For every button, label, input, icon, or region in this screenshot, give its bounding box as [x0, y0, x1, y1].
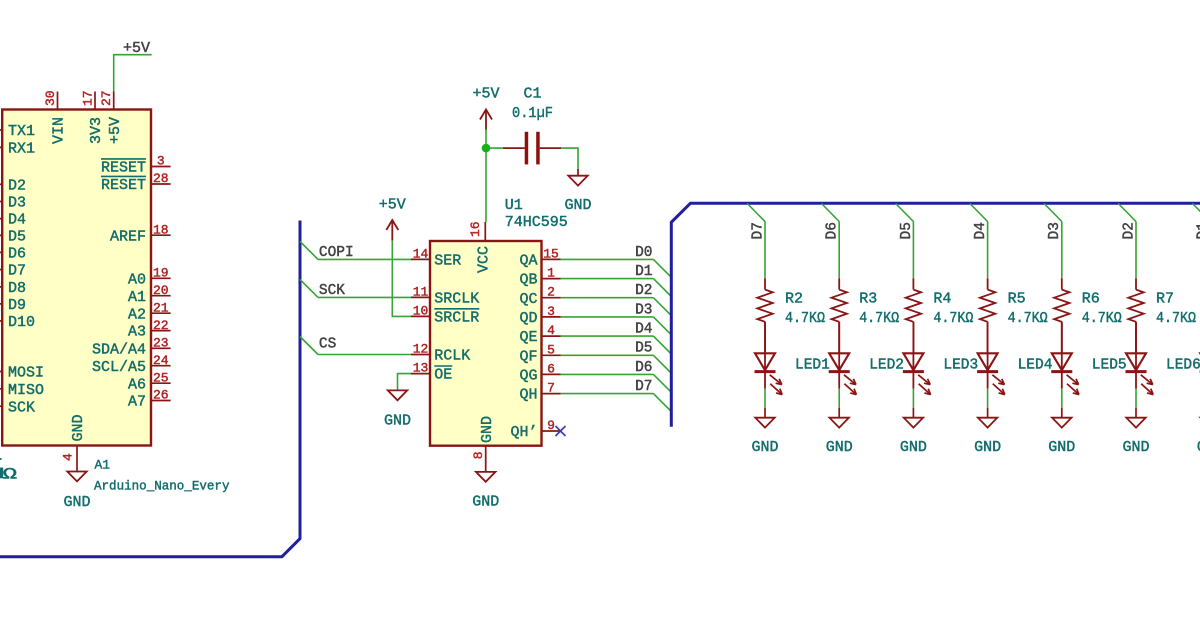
wire D3 from U1 QD [561, 316, 654, 318]
power symbol +5V (left of U1) [391, 220, 393, 241]
svg-text:14: 14 [413, 246, 429, 261]
ground pin stub [912, 408, 914, 418]
svg-text:LED3: LED3 [943, 358, 978, 374]
svg-text:QA: QA [519, 253, 537, 270]
wire D4 from U1 QE [561, 335, 654, 337]
svg-text:QE: QE [519, 329, 537, 346]
pin D6 (left) [0, 251, 2, 253]
U1 pin SRCLK pin11 (left) [411, 296, 430, 298]
svg-text:GND: GND [479, 416, 496, 443]
LED LED2 [838, 322, 840, 372]
svg-text:RCLK: RCLK [434, 348, 470, 365]
bus entry D5 column [896, 204, 914, 222]
svg-text:D0: D0 [635, 245, 652, 261]
svg-text:28: 28 [153, 171, 169, 186]
svg-text:OE: OE [434, 367, 452, 384]
bus entry D7 column [747, 204, 765, 222]
svg-text:SCK: SCK [8, 399, 35, 416]
U1 pin OE pin13 (left) [411, 373, 430, 375]
svg-text:11: 11 [413, 284, 429, 299]
pin D9 (left) [0, 303, 2, 305]
pin GND pin4 (bottom) [76, 446, 78, 472]
svg-text:+5V: +5V [472, 85, 499, 102]
bus entry D4 [653, 336, 671, 354]
svg-text:QH: QH [519, 387, 537, 404]
svg-text:D10: D10 [8, 314, 35, 331]
svg-text:U1: U1 [505, 197, 523, 214]
ground symbol column D2 [1126, 418, 1145, 428]
pin MOSI (left) [0, 371, 2, 373]
svg-text:QB: QB [519, 272, 537, 289]
svg-text:D1: D1 [635, 264, 652, 280]
svg-text:6: 6 [547, 361, 555, 376]
bus entry D6 [653, 374, 671, 392]
ground symbol column D5 [904, 418, 923, 428]
svg-text:4.7KΩ: 4.7KΩ [1008, 310, 1048, 327]
svg-text:2: 2 [547, 285, 555, 300]
svg-text:SER: SER [434, 253, 461, 270]
bus entry D3 [653, 317, 671, 335]
ground symbol column D7 [755, 418, 774, 428]
bus entry CS [300, 337, 318, 355]
pin A1 pin20 (right) [151, 295, 171, 297]
svg-text:3: 3 [547, 304, 555, 319]
Arduino Nano Every A1 body [2, 110, 151, 446]
pin A0 pin19 (right) [151, 277, 171, 279]
svg-text:25: 25 [153, 370, 169, 385]
wire OE to ground [398, 374, 412, 391]
U1 pin QC pin2 (right) [542, 297, 561, 299]
wire +5V down to VCC [485, 129, 487, 222]
svg-text:7: 7 [547, 381, 555, 396]
resistor R7 [1135, 278, 1137, 289]
pin D4 (left) [0, 218, 2, 220]
U1 pin SER pin14 (left) [411, 258, 430, 260]
svg-text:TX1: TX1 [8, 123, 35, 140]
svg-text:D2: D2 [8, 177, 26, 194]
wire D4 to resistor [987, 222, 989, 279]
pin RX1 (left) [0, 146, 2, 148]
pin A2 pin21 (right) [151, 312, 171, 314]
bus entry COPI [300, 241, 318, 259]
pin MISO (left) [0, 388, 2, 390]
pin SCK (left) [0, 405, 2, 407]
svg-text:D1: D1 [1196, 222, 1200, 239]
svg-text:3V3: 3V3 [88, 117, 105, 144]
svg-text:D4: D4 [8, 212, 26, 229]
U1 pin QG pin6 (right) [542, 373, 561, 375]
U1 pin QA pin15 (right) [542, 258, 561, 260]
ground pin stub [577, 169, 579, 176]
svg-text:D6: D6 [635, 360, 652, 376]
junction [482, 144, 491, 153]
svg-text:D5: D5 [8, 229, 26, 246]
svg-text:LED5: LED5 [1092, 358, 1127, 374]
svg-text:9: 9 [547, 418, 555, 433]
svg-text:GND: GND [900, 439, 927, 456]
svg-text:10: 10 [413, 303, 429, 318]
svg-text:COPI: COPI [319, 245, 354, 261]
wire LED to ground [1061, 389, 1063, 408]
wire D0 from U1 QA [561, 258, 654, 260]
bus (right, to LED columns) [671, 203, 1200, 426]
pin D8 (left) [0, 286, 2, 288]
ground symbol under A1 [67, 472, 86, 482]
resistor R5 [987, 278, 989, 289]
svg-text:0.1µF: 0.1µF [512, 105, 553, 122]
wire D2 from U1 QC [561, 297, 654, 299]
svg-text:+5V: +5V [123, 40, 150, 57]
LED LED1 [764, 322, 766, 372]
svg-text:D7: D7 [8, 263, 26, 280]
svg-text:24: 24 [153, 353, 169, 368]
svg-text:D2: D2 [1121, 222, 1137, 239]
U1 pin GND pin8 (bottom) [485, 446, 487, 472]
svg-text:GND: GND [1122, 439, 1149, 456]
pin D2 (left) [0, 183, 2, 185]
wire C1 to ground [561, 148, 578, 169]
svg-text:R4: R4 [933, 291, 951, 308]
bus (left, from A1 area) [0, 221, 300, 557]
ground symbol under OE [388, 390, 407, 400]
pin SCL/A5 pin24 (right) [151, 365, 171, 367]
svg-text:13: 13 [413, 361, 429, 376]
wire D5 to resistor [912, 222, 914, 279]
svg-text:SCL/A5: SCL/A5 [92, 359, 146, 376]
svg-text:4.7KΩ: 4.7KΩ [785, 310, 825, 327]
svg-text:18: 18 [153, 222, 169, 237]
svg-text:D4: D4 [635, 322, 652, 338]
svg-text:QD: QD [519, 310, 537, 327]
svg-text:1: 1 [547, 266, 555, 281]
U1 pin QE pin4 (right) [542, 335, 561, 337]
ground pin stub [1135, 408, 1137, 418]
wire LED to ground [987, 389, 989, 408]
svg-text:SDA/A4: SDA/A4 [92, 341, 146, 358]
pin RESET pin3 (right) [151, 166, 171, 168]
bus entry D2 [653, 298, 671, 316]
svg-text:30: 30 [43, 90, 58, 106]
ground symbol under U1 [476, 472, 495, 482]
pin A3 pin22 (right) [151, 330, 171, 332]
svg-text:AREF: AREF [110, 228, 146, 245]
svg-text:D5: D5 [899, 222, 915, 239]
svg-text:20: 20 [153, 283, 169, 298]
wire +5V from pin27 to net label [114, 55, 152, 92]
pin RESET pin28 (right) [151, 183, 171, 185]
wire LED to ground [764, 389, 766, 408]
ground symbol column D6 [830, 418, 849, 428]
svg-text:4.7KΩ: 4.7KΩ [933, 310, 973, 327]
resistor R1 labels (cut off at left edge) [0, 458, 2, 460]
svg-text:MOSI: MOSI [8, 365, 44, 382]
wire LED to ground [912, 389, 914, 408]
svg-text:4: 4 [61, 453, 76, 461]
svg-text:16: 16 [468, 221, 483, 237]
LED LED4 [987, 322, 989, 372]
wire D6 from U1 QG [561, 373, 654, 375]
svg-text:GND: GND [826, 439, 853, 456]
svg-text:VCC: VCC [476, 246, 493, 273]
svg-text:GND: GND [974, 439, 1001, 456]
svg-text:Ω: Ω [3, 466, 17, 484]
svg-text:74HC595: 74HC595 [505, 214, 568, 231]
svg-text:D3: D3 [8, 195, 26, 212]
svg-text:RX1: RX1 [8, 141, 35, 158]
U1 pin VCC pin16 (top) [484, 222, 486, 241]
resistor R6 [1061, 278, 1063, 289]
bus entry D1 [653, 279, 671, 297]
bus entry D6 column [822, 204, 840, 222]
svg-text:QF: QF [519, 348, 537, 365]
svg-text:D8: D8 [8, 280, 26, 297]
svg-text:19: 19 [153, 266, 169, 281]
svg-text:+5V: +5V [107, 117, 124, 144]
pin D7 (left) [0, 269, 2, 271]
svg-text:A3: A3 [128, 324, 146, 341]
svg-text:5: 5 [547, 342, 555, 357]
svg-text:D3: D3 [1047, 222, 1063, 239]
svg-text:A7: A7 [128, 394, 146, 411]
LED LED6 [1135, 322, 1137, 372]
pin SDA/A4 pin23 (right) [151, 347, 171, 349]
svg-text:CS: CS [319, 337, 336, 353]
U1 pin RCLK pin12 (left) [411, 354, 430, 356]
pin AREF pin18 (right) [151, 234, 171, 236]
wire D7 from U1 QH [561, 393, 654, 395]
svg-text:QH’: QH’ [510, 424, 537, 441]
power symbol +5V (above U1) [485, 110, 487, 131]
ground pin stub [987, 408, 989, 418]
pin 3V3 pin17 (top) [94, 92, 96, 110]
bus entry D2 column [1118, 204, 1136, 222]
svg-text:4.7KΩ: 4.7KΩ [1082, 310, 1122, 327]
wire SCK [318, 296, 411, 298]
svg-text:RESET: RESET [101, 160, 146, 177]
svg-text:LED2: LED2 [869, 358, 904, 374]
svg-text:R5: R5 [1008, 291, 1026, 308]
svg-text:SCK: SCK [319, 283, 345, 299]
wire D2 to resistor [1135, 222, 1137, 279]
svg-text:RESET: RESET [101, 177, 146, 194]
pin D10 (left) [0, 320, 2, 322]
svg-text:MISO: MISO [8, 382, 44, 399]
svg-text:GND: GND [751, 439, 778, 456]
wire LED to ground [1135, 389, 1137, 408]
wire CS [318, 354, 411, 356]
bus entry D4 column [970, 204, 988, 222]
svg-text:C1: C1 [523, 85, 541, 102]
wire D1 from U1 QB [561, 278, 654, 280]
svg-text:A1: A1 [95, 458, 111, 473]
wire D3 to resistor [1061, 222, 1063, 279]
svg-text:26: 26 [153, 388, 169, 403]
bus entry D5 [653, 355, 671, 373]
svg-text:D4: D4 [973, 222, 989, 239]
svg-text:GND: GND [63, 494, 90, 511]
svg-text:GND: GND [472, 494, 499, 511]
resistor R3 [838, 278, 840, 289]
pin VIN pin30 (top) [57, 92, 59, 110]
svg-text:15: 15 [543, 246, 559, 261]
svg-text:R7: R7 [1156, 291, 1174, 308]
pin D3 (left) [0, 201, 2, 203]
svg-text:LED1: LED1 [795, 358, 830, 374]
svg-text:22: 22 [153, 318, 169, 333]
bus entry D0 [653, 259, 671, 277]
pin D5 (left) [0, 234, 2, 236]
svg-text:3: 3 [157, 154, 165, 169]
ground pin stub [764, 408, 766, 418]
svg-text:GND: GND [1048, 439, 1075, 456]
U1 pin QF pin5 (right) [542, 354, 561, 356]
svg-text:12: 12 [413, 342, 429, 357]
svg-text:D2: D2 [635, 283, 652, 299]
ground symbol column D3 [1052, 418, 1071, 428]
svg-text:Arduino_Nano_Every: Arduino_Nano_Every [94, 479, 230, 494]
svg-text:SRCLR: SRCLR [434, 310, 479, 327]
U1 pin SRCLR pin10 (left) [411, 315, 430, 317]
bus entry D1 column [1193, 204, 1200, 222]
svg-text:A6: A6 [128, 376, 146, 393]
pin TX1 (left) [0, 129, 2, 131]
svg-text:+5V: +5V [379, 197, 406, 214]
svg-text:4.7KΩ: 4.7KΩ [1156, 310, 1196, 327]
pin +5V pin27 (top) [113, 92, 115, 110]
svg-text:GND: GND [384, 413, 411, 430]
resistor R2 [764, 278, 766, 289]
svg-text:SRCLK: SRCLK [434, 291, 479, 308]
svg-text:21: 21 [153, 300, 169, 315]
ground pin stub [1061, 408, 1063, 418]
svg-text:4: 4 [547, 323, 555, 338]
svg-text:17: 17 [80, 90, 95, 106]
svg-text:D5: D5 [635, 341, 652, 357]
ground symbol right of C1 [568, 176, 587, 186]
svg-text:GND: GND [564, 197, 591, 214]
U1 pin QD pin3 (right) [542, 316, 561, 318]
svg-text:D6: D6 [825, 222, 841, 239]
svg-text:R2: R2 [785, 291, 803, 308]
wire junction to C1 [486, 147, 503, 149]
svg-text:QG: QG [519, 368, 537, 385]
pin A6 pin25 (right) [151, 382, 171, 384]
svg-text:LED4: LED4 [1018, 358, 1053, 374]
ground pin stub [838, 408, 840, 418]
svg-text:R3: R3 [859, 291, 877, 308]
svg-text:D9: D9 [8, 297, 26, 314]
svg-text:A2: A2 [128, 306, 146, 323]
bus entry D7 [653, 394, 671, 412]
no-connect X on pin 9 [556, 426, 566, 436]
LED LED5 [1061, 322, 1063, 372]
U1 pin QH pin7 (right) [542, 393, 561, 395]
wire COPI [318, 258, 411, 260]
svg-text:D7: D7 [635, 379, 652, 395]
svg-text:8: 8 [471, 451, 486, 459]
svg-text:GND: GND [70, 414, 87, 441]
bus entry D3 column [1044, 204, 1062, 222]
svg-text:D7: D7 [750, 222, 766, 239]
svg-text:4.7KΩ: 4.7KΩ [859, 310, 899, 327]
svg-text:A1: A1 [128, 289, 146, 306]
wire D6 to resistor [838, 222, 840, 279]
pin A7 pin26 (right) [151, 400, 171, 402]
svg-text:D6: D6 [8, 246, 26, 263]
svg-text:VIN: VIN [51, 117, 68, 144]
svg-text:D3: D3 [635, 302, 652, 318]
svg-text:R6: R6 [1082, 291, 1100, 308]
U1 pin QB pin1 (right) [542, 278, 561, 280]
svg-text:A0: A0 [128, 271, 146, 288]
svg-text:27: 27 [99, 90, 114, 106]
wire D5 from U1 QF [561, 354, 654, 356]
ground symbol column D4 [978, 418, 997, 428]
LED LED3 [912, 322, 914, 372]
wire D7 to resistor [764, 222, 766, 279]
U1 74HC595 body [430, 241, 542, 446]
bus entry SCK [300, 279, 318, 297]
wire +5V to SRCLR pin10 [392, 241, 411, 317]
wire LED to ground [838, 389, 840, 408]
capacitor C1 [503, 147, 525, 149]
U1 pin QH' pin9 (right, no-connect) [542, 430, 561, 432]
svg-text:QC: QC [519, 291, 537, 308]
svg-text:23: 23 [153, 336, 169, 351]
resistor R4 [912, 278, 914, 289]
svg-text:LED6: LED6 [1166, 358, 1200, 374]
